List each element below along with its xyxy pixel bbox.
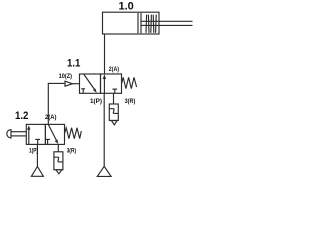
svg-text:1.2: 1.2 bbox=[15, 110, 28, 122]
silencer at valve 1.2 port 3(R) bbox=[54, 152, 63, 170]
wire cylinder port to valve 1.1 port 2 bbox=[104, 34, 106, 74]
silencer at valve 1.1 port 3(R) bbox=[109, 104, 118, 121]
wire valve 1.2 port 2(A) to pilot of valve 1.1 bbox=[47, 83, 50, 124]
compressed air supply under valve 1.1 bbox=[97, 166, 111, 176]
valve 1.1 body left box bbox=[80, 74, 101, 93]
compressed air supply under valve 1.2 bbox=[31, 167, 43, 177]
svg-text:3(R): 3(R) bbox=[67, 147, 77, 154]
valve 1.2 return spring bbox=[65, 128, 82, 139]
svg-text:1(P): 1(P) bbox=[90, 98, 102, 105]
svg-text:2(A): 2(A) bbox=[45, 114, 57, 121]
valve 1.2 body right box bbox=[45, 124, 64, 144]
svg-text:1.1: 1.1 bbox=[67, 57, 80, 69]
valve 1.1 left box flow path (diagonal arrow) bbox=[84, 75, 96, 92]
return spring 1.0 bbox=[146, 15, 156, 33]
wire valve 1.1 port 3(R) to silencer bbox=[113, 93, 115, 104]
svg-text:1(P): 1(P) bbox=[29, 147, 38, 154]
valve 1.1 return spring bbox=[122, 77, 137, 88]
svg-text:1.0: 1.0 bbox=[119, 0, 134, 12]
valve 1.2 right box blocked port T bbox=[45, 138, 50, 140]
cylinder 1.0 bbox=[103, 12, 160, 34]
valve 1.1 pilot line 10(Z) bbox=[48, 82, 65, 84]
valve 1.2 right box flow path (diagonal arrow to exhaust) bbox=[48, 125, 57, 142]
valve 1.1 left box blocked port T bbox=[81, 88, 85, 90]
valve 1.2 left box blocked port T bbox=[35, 138, 40, 140]
valve 1.1 pilot triangle bbox=[65, 81, 73, 86]
svg-text:2(A): 2(A) bbox=[109, 66, 119, 73]
valve 1.2 body left box bbox=[26, 124, 45, 144]
piston 1.0 bbox=[137, 13, 139, 33]
svg-text:10(Z): 10(Z) bbox=[59, 73, 72, 80]
valve 1.2 push button bbox=[7, 130, 11, 138]
valve 1.1 right box blocked port T bbox=[112, 88, 117, 90]
wire valve 1.1 port 1(P) down to supply bbox=[103, 93, 105, 166]
valve 1.1 body right box bbox=[101, 74, 122, 93]
svg-text:3(R): 3(R) bbox=[125, 98, 136, 105]
valve 1.2 left box flow path (vertical arrow up) bbox=[28, 127, 30, 144]
wire valve 1.2 port 3(R) to silencer bbox=[57, 144, 59, 151]
wire valve 1.2 port 1(P) down to supply bbox=[36, 144, 38, 166]
piston rod 1.0 bbox=[141, 20, 193, 22]
valve 1.1 right box flow path (vertical arrow up) bbox=[103, 76, 105, 93]
